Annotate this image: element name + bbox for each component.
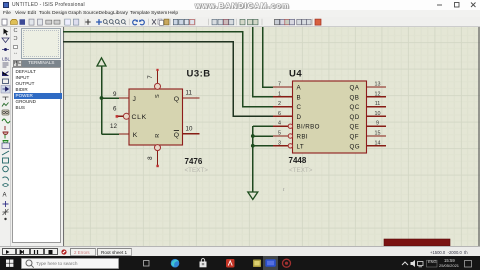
svg-text:8: 8 <box>147 156 154 160</box>
svg-text:13: 13 <box>375 82 381 88</box>
svg-text:7: 7 <box>147 75 154 79</box>
svg-text:LT: LT <box>297 143 305 150</box>
svg-text:RBI: RBI <box>297 134 309 141</box>
svg-text:S: S <box>155 94 161 98</box>
svg-text:QB: QB <box>350 94 360 101</box>
svg-text:11: 11 <box>375 101 381 107</box>
svg-text:A: A <box>3 192 7 198</box>
svg-text:12: 12 <box>110 123 117 130</box>
svg-text:<TEXT>: <TEXT> <box>289 167 313 174</box>
svg-text:1: 1 <box>278 91 281 97</box>
svg-text:6: 6 <box>278 111 281 117</box>
svg-text:QC: QC <box>350 104 360 111</box>
svg-text:LBL: LBL <box>2 56 11 61</box>
svg-text:7448: 7448 <box>289 156 307 165</box>
svg-text:<TEXT>: <TEXT> <box>185 167 209 174</box>
svg-text:U4: U4 <box>289 69 302 80</box>
svg-text:9: 9 <box>376 121 379 127</box>
svg-text:R: R <box>155 133 161 138</box>
svg-text:QG: QG <box>350 143 360 150</box>
svg-text:10: 10 <box>375 111 381 117</box>
svg-text:12: 12 <box>375 91 381 97</box>
svg-text:7476: 7476 <box>185 157 203 166</box>
svg-text:15: 15 <box>375 131 381 137</box>
svg-text:QE: QE <box>350 124 360 131</box>
svg-text:4: 4 <box>278 121 281 127</box>
svg-text:D: D <box>297 114 302 121</box>
svg-text:B: B <box>297 94 302 101</box>
svg-text:BI/RBO: BI/RBO <box>297 124 320 131</box>
svg-text:Q: Q <box>174 132 180 139</box>
svg-text:CLK: CLK <box>132 114 147 121</box>
svg-text:K: K <box>133 132 138 139</box>
svg-text:Q: Q <box>174 96 180 103</box>
svg-text:11: 11 <box>186 90 193 97</box>
svg-text:C: C <box>297 104 302 111</box>
svg-text:10: 10 <box>186 125 193 132</box>
svg-text:A: A <box>297 85 302 92</box>
svg-text:J: J <box>133 96 137 103</box>
svg-text:14: 14 <box>375 140 381 146</box>
svg-text:9: 9 <box>113 91 117 98</box>
svg-text:U3:B: U3:B <box>187 68 211 79</box>
svg-text:QA: QA <box>350 85 360 92</box>
svg-text:6: 6 <box>113 106 117 113</box>
svg-text:2: 2 <box>278 101 281 107</box>
svg-text:QD: QD <box>350 114 360 121</box>
svg-text:5: 5 <box>278 131 281 137</box>
svg-text:3: 3 <box>278 140 281 146</box>
svg-text:7: 7 <box>278 82 281 88</box>
svg-text:QF: QF <box>350 134 359 141</box>
